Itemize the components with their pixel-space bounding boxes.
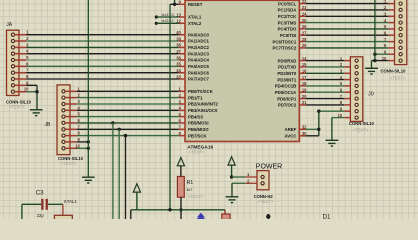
JB pin 7 stub xyxy=(65,128,77,130)
wire JB pin4 to PB3 xyxy=(77,109,179,111)
wire PC0 to JC pin1 xyxy=(306,3,389,5)
JB pin 2 stub xyxy=(65,97,77,99)
JC pin 4 stub xyxy=(388,22,394,24)
wire JB pin1 to PB0 xyxy=(77,90,179,92)
junction JB pin9 / rail xyxy=(87,140,90,143)
svg-text:CONN-SIL10: CONN-SIL10 xyxy=(381,68,407,73)
J0 pin 10 circle xyxy=(355,116,358,119)
capacitor C3 plates xyxy=(41,199,43,210)
svg-text:<TEXT>: <TEXT> xyxy=(353,128,369,133)
svg-text:XTAL1: XTAL1 xyxy=(188,15,202,20)
connector J0 (CONN-SIL10) body xyxy=(350,57,362,122)
POWER pin 1 stub xyxy=(245,176,257,178)
wire PD5 to J0 pin6 xyxy=(306,91,345,93)
svg-text:PA4/ADC4: PA4/ADC4 xyxy=(188,58,210,63)
JB pin 3 stub xyxy=(65,103,77,105)
wire PC5 to JC pin6 xyxy=(306,34,389,36)
U1 pin 27 (PC5/TDI) stub xyxy=(299,34,305,36)
wire J0 pin10 down xyxy=(331,118,333,141)
wire JB pin8 to PB7 xyxy=(77,135,179,137)
svg-text:<TEXT>: <TEXT> xyxy=(9,104,25,109)
U1 pin 40 (PA0/ADC0) stub xyxy=(179,34,185,36)
J0 pin 3 stub xyxy=(344,72,350,74)
JA pin 8 circle xyxy=(11,77,14,80)
wire bottom-right corner down (component pin) xyxy=(224,210,226,219)
wire PD3 to J0 pin4 xyxy=(306,79,345,81)
wire POWER pin2 down to ground xyxy=(231,183,233,197)
svg-text:PA0/ADC0: PA0/ADC0 xyxy=(188,32,210,37)
svg-text:PB3/AIN1/OC0: PB3/AIN1/OC0 xyxy=(188,108,218,113)
junction long vertical / bottom wire xyxy=(168,208,171,211)
wire PC2 to JC pin3 xyxy=(306,15,389,17)
wire J0 pin10 xyxy=(332,117,344,119)
wire J0 pin9 xyxy=(319,110,344,112)
wire JB pin3 to PB2 xyxy=(77,103,179,105)
junction JC pin9 / rail xyxy=(373,53,376,56)
node XTAL1 wire end xyxy=(155,15,158,18)
U1 pin 21 (PD7/OC2) stub xyxy=(299,104,305,106)
svg-text:PD1/TXD: PD1/TXD xyxy=(278,65,296,70)
J0 pin 1 stub xyxy=(344,60,350,62)
crystal XTAL1 body (partially visible) xyxy=(54,215,72,220)
wire R1 bottom down xyxy=(180,197,182,219)
wire PD0 to J0 pin1 xyxy=(306,60,345,62)
wire JB pin10 right xyxy=(77,147,89,149)
wire down to crystal xyxy=(62,204,64,215)
svg-text:PC0/SCL: PC0/SCL xyxy=(278,1,297,6)
U1 pin 19 (PD5/OC1A) stub xyxy=(299,91,305,93)
svg-text:10: 10 xyxy=(24,87,29,92)
node XTAL2 wire end xyxy=(155,22,158,25)
U1 pin 13 (XTAL1) stub xyxy=(179,16,185,18)
JA pin 8 stub xyxy=(15,78,27,80)
svg-text:PA6/ADC6: PA6/ADC6 xyxy=(188,70,210,75)
J0 pin 5 circle xyxy=(355,84,358,87)
svg-text:<TEXT>: <TEXT> xyxy=(188,194,204,199)
JB pin 6 circle xyxy=(62,121,65,124)
resistor R1 body xyxy=(177,177,184,198)
JB pin 7 circle xyxy=(62,128,65,131)
wire bottom horizontal xyxy=(131,209,225,211)
junction PB5 drop xyxy=(111,121,114,124)
svg-text:<TEXT>: <TEXT> xyxy=(61,161,77,166)
U1 pin 33 (PA7/ADC7) stub xyxy=(179,78,185,80)
JC pin 6 stub xyxy=(388,34,394,36)
svg-text:XTAL1: XTAL1 xyxy=(64,199,78,204)
wire vertical rail x=375 xyxy=(374,0,376,61)
svg-text:10: 10 xyxy=(75,143,80,148)
JB pin 9 circle xyxy=(62,140,65,143)
U1 pin 4 (PB3/AIN1/OC0) stub xyxy=(179,109,185,111)
svg-text:AREF: AREF xyxy=(285,127,297,132)
JB pin 1 circle xyxy=(62,90,65,93)
wire PD2 to J0 pin3 xyxy=(306,72,345,74)
wire JA pin3 to PA2 xyxy=(26,46,178,48)
JB pin 2 circle xyxy=(62,96,65,99)
JA pin 1 stub xyxy=(15,34,27,36)
JB pin 6 stub xyxy=(65,122,77,124)
wire XTAL2 xyxy=(156,22,178,24)
U1 pin 12 (XTAL2) stub xyxy=(179,22,185,24)
wire JA pin2 to PA1 xyxy=(26,40,178,42)
svg-text:PD5/OC1A: PD5/OC1A xyxy=(275,90,297,95)
junction power arrow / pin1 wire xyxy=(230,175,233,178)
POWER pin 2 stub xyxy=(245,182,257,184)
svg-text:PB2/AIN0/INT2: PB2/AIN0/INT2 xyxy=(188,102,218,107)
wire JA pin6 to PA5 xyxy=(26,65,178,67)
JA pin 9 stub xyxy=(15,84,27,86)
JB pin 10 circle xyxy=(62,147,65,150)
J0 pin 3 circle xyxy=(355,72,358,75)
JC pin 8 circle xyxy=(399,46,402,49)
JB pin 8 circle xyxy=(62,134,65,137)
J0 pin 9 stub xyxy=(344,110,350,112)
J0 pin 4 stub xyxy=(344,79,350,81)
svg-text:xU1:13: xU1:13 xyxy=(162,13,174,17)
J0 pin 7 circle xyxy=(355,97,358,100)
wire power arrow stem to bottom wire xyxy=(136,192,138,210)
U1 pin 28 (PC6/TOSC1) stub xyxy=(299,41,305,43)
wire JB pin5 to PB4 xyxy=(77,116,179,118)
U1 pin 22 (PC0/SCL) stub xyxy=(299,3,305,5)
wire JA pin7 to PA6 xyxy=(26,72,178,74)
JC pin 7 stub xyxy=(388,41,394,43)
JB pin 8 stub xyxy=(65,135,77,137)
svg-text:PB1/T1: PB1/T1 xyxy=(188,95,203,100)
JB pin 10 stub xyxy=(65,147,77,149)
JC pin 5 circle xyxy=(399,27,402,30)
U1 pin 5 (PB4/SS) stub xyxy=(179,116,185,118)
wire JA pin9 down to ground xyxy=(36,85,38,110)
JC pin 3 circle xyxy=(399,15,402,18)
JA pin 9 circle xyxy=(11,84,14,87)
wire PC6 to JC pin7 xyxy=(306,41,389,43)
svg-text:JB: JB xyxy=(45,122,52,128)
JC pin 3 stub xyxy=(388,15,394,17)
svg-text:PD0/RXD: PD0/RXD xyxy=(278,58,297,63)
wire vertical rail x=88 to ground xyxy=(87,0,89,177)
JB pin 9 stub xyxy=(65,141,77,143)
svg-text:PC6/TOSC1: PC6/TOSC1 xyxy=(272,39,296,44)
wire PC3 to JC pin4 xyxy=(306,22,389,24)
svg-text:xU2:12: xU2:12 xyxy=(162,19,174,23)
U1 pin 30 (AVCC) stub xyxy=(299,135,305,137)
JA pin 1 circle xyxy=(11,33,14,36)
JA pin 7 stub xyxy=(15,72,27,74)
ground below JC xyxy=(365,68,378,74)
JC pin 8 stub xyxy=(388,47,394,49)
JB pin 4 stub xyxy=(65,109,77,111)
JC pin 1 circle xyxy=(399,2,402,5)
U1 pin 20 (PD6/ICP1) stub xyxy=(299,98,305,100)
J0 pin 9 circle xyxy=(355,110,358,113)
J0 pin 8 stub xyxy=(344,104,350,106)
wire RESET up to top edge xyxy=(174,0,176,4)
svg-text:<TEXT>: <TEXT> xyxy=(258,199,274,204)
svg-text:J0: J0 xyxy=(368,91,374,97)
svg-text:PC3/TMS: PC3/TMS xyxy=(278,20,297,25)
svg-text:JA: JA xyxy=(6,22,13,28)
junction JA pin9/pin10 xyxy=(35,90,38,93)
svg-text:POWER: POWER xyxy=(256,164,282,171)
wire C3 right xyxy=(48,203,63,205)
JC pin 2 circle xyxy=(399,8,402,11)
svg-text:RESET: RESET xyxy=(188,2,203,7)
ground below JB xyxy=(82,177,95,183)
J0 pin 1 circle xyxy=(355,59,358,62)
svg-text:PC7/TOSC2: PC7/TOSC2 xyxy=(272,46,296,51)
JB pin 5 circle xyxy=(62,115,65,118)
wire PD4 to J0 pin5 xyxy=(306,85,345,87)
blue terminal symbol xyxy=(197,213,205,217)
JA pin 3 circle xyxy=(11,46,14,49)
wire JA pin1 to PA0 xyxy=(26,34,178,36)
svg-text:XTAL2: XTAL2 xyxy=(188,21,202,26)
wire vertical AREF/AVCC rail xyxy=(318,111,320,136)
junction JC pin10 / rail xyxy=(373,59,376,62)
svg-text:PB5/MOSI: PB5/MOSI xyxy=(188,121,209,126)
JC pin 9 circle xyxy=(399,53,402,56)
wire JC pin9 xyxy=(375,53,388,55)
U1 pin 14 (PD0/RXD) stub xyxy=(299,60,305,62)
svg-text:PB6/MISO: PB6/MISO xyxy=(188,127,209,132)
wire PC4 to JC pin5 xyxy=(306,28,389,30)
JC pin 5 stub xyxy=(388,28,394,30)
U1 pin 37 (PA3/ADC3) stub xyxy=(179,53,185,55)
power terminal at POWER conn xyxy=(228,157,235,165)
JA pin 10 circle xyxy=(11,90,14,93)
U1 pin 29 (PC7/TOSC2) stub xyxy=(299,47,305,49)
JA pin 5 stub xyxy=(15,59,27,61)
JC pin 2 stub xyxy=(388,9,394,11)
wire AVCC xyxy=(306,135,319,137)
wire PD7 to J0 pin8 xyxy=(306,104,345,106)
POWER pin 1 circle xyxy=(261,175,264,178)
svg-text:D1: D1 xyxy=(323,214,331,220)
power terminal above R1 xyxy=(177,158,184,166)
wire POWER pin1 xyxy=(232,176,246,178)
U1 pin 6 (PB5/MOSI) stub xyxy=(179,122,185,124)
wire AREF xyxy=(306,128,319,130)
junction RESET xyxy=(173,3,176,6)
JA pin 3 stub xyxy=(15,46,27,48)
U1 pin 8 (PB7/SCK) stub xyxy=(179,135,185,137)
svg-text:PD6/ICP1: PD6/ICP1 xyxy=(277,96,297,101)
svg-text:PD2/INT0: PD2/INT0 xyxy=(277,71,296,76)
wire POWER pin2 xyxy=(232,182,245,184)
J0 pin 5 stub xyxy=(344,85,350,87)
JC pin 1 stub xyxy=(388,3,394,5)
POWER pin 2 circle xyxy=(261,182,264,185)
J0 pin 8 circle xyxy=(355,103,358,106)
junction PB6 drop xyxy=(118,128,121,131)
svg-text:PA7/ADC7: PA7/ADC7 xyxy=(188,77,210,82)
svg-text:R1: R1 xyxy=(187,180,194,186)
ground below POWER conn xyxy=(226,197,239,203)
svg-text:PD7/OC2: PD7/OC2 xyxy=(278,103,297,108)
wire C3 left corner down xyxy=(21,204,23,219)
JB pin 3 circle xyxy=(62,102,65,105)
J0 pin 2 circle xyxy=(355,65,358,68)
JC pin 9 stub xyxy=(388,53,394,55)
svg-text:PC5/TDI: PC5/TDI xyxy=(280,33,296,38)
wire PD6 to J0 pin7 xyxy=(306,98,345,100)
power terminal mid-bottom xyxy=(133,184,140,192)
U1 pin 15 (PD1/TXD) stub xyxy=(299,66,305,68)
ground below JA xyxy=(30,110,43,116)
wire JA pin8 to PA7 xyxy=(26,78,178,80)
svg-text:PC1/SDA: PC1/SDA xyxy=(278,8,297,13)
svg-text:PA5/ADC5: PA5/ADC5 xyxy=(188,64,210,69)
U1 pin 39 (PA1/ADC1) stub xyxy=(179,40,185,42)
JA pin 4 stub xyxy=(15,53,27,55)
JC pin 6 circle xyxy=(399,34,402,37)
connector JA (CONN-SIL10) body xyxy=(7,30,20,95)
JB pin 1 stub xyxy=(65,90,77,92)
wire R1 top xyxy=(180,166,182,177)
svg-text:C3: C3 xyxy=(36,190,44,197)
wire JA pin10 right xyxy=(26,91,37,93)
svg-text:PC2/TCK: PC2/TCK xyxy=(278,14,297,19)
svg-text:PA1/ADC1: PA1/ADC1 xyxy=(188,39,210,44)
JA pin 6 stub xyxy=(15,65,27,67)
U1 pin 1 (PB0/T0/XCK) stub xyxy=(179,90,185,92)
JA pin 6 circle xyxy=(11,65,14,68)
junction R1 / bottom wire xyxy=(179,208,182,211)
wire stub bottom edge xyxy=(267,214,269,219)
JA pin 2 circle xyxy=(11,39,14,42)
wire PC7 to JC pin8 xyxy=(306,47,389,49)
junction AREF / rail xyxy=(317,128,320,131)
svg-text:PD3/INT1: PD3/INT1 xyxy=(277,77,296,82)
wire JB pin6 to PB5 xyxy=(77,122,179,124)
U1 pin 32 (AREF) stub xyxy=(299,128,305,130)
wire JA pin5 to PA4 xyxy=(26,59,178,61)
svg-text:AVCC: AVCC xyxy=(284,134,296,139)
svg-text:4k7: 4k7 xyxy=(186,188,192,192)
U1 pin 18 (PD4/OC1B) stub xyxy=(299,85,305,87)
junction PB7 drop xyxy=(124,134,127,137)
diode D1 top (partially visible) xyxy=(222,214,230,220)
svg-text:PD4/OC1B: PD4/OC1B xyxy=(275,84,297,89)
wire JA pin4 to PA3 xyxy=(26,53,178,55)
U1 pin 9 (RESET) stub xyxy=(179,3,185,5)
svg-text:CONN-SIL10: CONN-SIL10 xyxy=(349,121,375,126)
U1 pin 23 (PC1/SDA) stub xyxy=(299,9,305,11)
U1 pin 24 (PC2/TCK) stub xyxy=(299,15,305,17)
JA pin 5 circle xyxy=(11,58,14,61)
JA pin 2 stub xyxy=(15,40,27,42)
J0 pin 6 stub xyxy=(344,91,350,93)
J0 pin 4 circle xyxy=(355,78,358,81)
op-amp U1: microcontroller ATMEGA16 IC body xyxy=(185,0,299,141)
U1 pin 35 (PA5/ADC5) stub xyxy=(179,65,185,67)
wire XTAL1 xyxy=(156,16,178,18)
wire PB5 drop vertical xyxy=(112,123,114,219)
wire JC pin10 xyxy=(372,60,389,62)
connector CONN-H2 (POWER) body xyxy=(257,171,269,190)
JA pin 4 circle xyxy=(11,52,14,55)
wire PB7 drop vertical xyxy=(125,136,127,219)
JC pin 7 circle xyxy=(399,40,402,43)
svg-text:PB4/SS: PB4/SS xyxy=(188,114,203,119)
U1 pin 34 (PA6/ADC6) stub xyxy=(179,72,185,74)
node bottom edge xyxy=(266,214,270,218)
svg-text:22p: 22p xyxy=(37,213,45,218)
JA pin 7 circle xyxy=(11,71,14,74)
wire bottom-left corner down xyxy=(130,210,132,219)
J0 pin 7 stub xyxy=(344,98,350,100)
svg-text:PA3/ADC3: PA3/ADC3 xyxy=(188,51,210,56)
svg-text:PA2/ADC2: PA2/ADC2 xyxy=(188,45,210,50)
svg-text:<TEXT>: <TEXT> xyxy=(188,150,205,155)
svg-text:PB0/T0/XCK: PB0/T0/XCK xyxy=(188,89,214,94)
svg-text:<TEXT>: <TEXT> xyxy=(390,75,406,80)
wire C3 left xyxy=(22,203,41,205)
U1 pin 16 (PD2/INT0) stub xyxy=(299,72,305,74)
JC pin 4 circle xyxy=(399,21,402,24)
JC pin 10 stub xyxy=(388,60,394,62)
svg-text:PB7/SCK: PB7/SCK xyxy=(188,133,208,138)
J0 pin 6 circle xyxy=(355,91,358,94)
J0 pin 2 stub xyxy=(344,66,350,68)
U1 pin 7 (PB6/MISO) stub xyxy=(179,128,185,130)
wire power arrow stem xyxy=(231,165,233,177)
JC pin 10 circle xyxy=(399,59,402,62)
wire PD1 to J0 pin2 xyxy=(306,66,345,68)
U1 pin 38 (PA2/ADC2) stub xyxy=(179,46,185,48)
JB pin 5 stub xyxy=(65,116,77,118)
wire PB6 drop vertical xyxy=(118,129,120,219)
U1 pin 36 (PA4/ADC4) stub xyxy=(179,59,185,61)
U1 pin 2 (PB1/T1) stub xyxy=(179,97,185,99)
U1 pin 25 (PC3/TMS) stub xyxy=(299,22,305,24)
wire JB pin9 right xyxy=(77,141,89,143)
ground below J0 xyxy=(326,140,339,146)
U1 pin 17 (PD3/INT1) stub xyxy=(299,79,305,81)
connector CONN-SIL10 top-right body xyxy=(395,0,407,65)
wire JB pin2 to PB1 xyxy=(77,97,179,99)
wire long vertical x=170 xyxy=(169,4,171,210)
J0 pin 10 stub xyxy=(344,117,350,119)
wire JB pin7 to PB6 xyxy=(77,128,179,130)
junction JB pin10 / rail xyxy=(87,147,90,150)
svg-text:PC4/TDO: PC4/TDO xyxy=(278,27,297,32)
JA pin 10 stub xyxy=(15,91,27,93)
wire JC pin10 down to ground xyxy=(371,61,373,69)
wire JA pin9 right xyxy=(26,84,37,86)
wire PC1 to JC pin2 xyxy=(306,9,389,11)
U1 pin 26 (PC4/TDO) stub xyxy=(299,28,305,30)
connector JB (CONN-SIL10) body xyxy=(57,85,70,155)
JB pin 4 circle xyxy=(62,109,65,112)
wire RESET horizontal xyxy=(170,3,179,5)
junction J0 pin9 / AREF rail xyxy=(317,110,320,113)
U1 pin 3 (PB2/AIN0/INT2) stub xyxy=(179,103,185,105)
